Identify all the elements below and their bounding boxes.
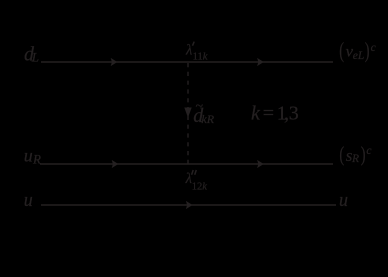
svg-text:c: c <box>371 42 376 54</box>
node label u_R <box>24 146 41 167</box>
arrowhead on top line (left) <box>111 58 118 66</box>
svg-text:λ: λ <box>185 43 192 59</box>
svg-text:kR: kR <box>201 112 214 126</box>
svg-text:R: R <box>351 153 359 165</box>
svg-text:u: u <box>339 190 348 211</box>
wire: middle fermion line u_R to (s_R)^c <box>40 163 333 165</box>
text k = 1, 3 <box>251 103 299 125</box>
arrowhead on top line (right) <box>257 58 264 66</box>
arrowhead on bottom line <box>186 201 193 209</box>
wire: scalar propagator d~_kR (vertical dashed line) <box>187 63 189 164</box>
arrowhead on middle line (left) <box>112 160 119 168</box>
svg-text:u: u <box>24 190 33 211</box>
vertex label lambda'_11k <box>185 42 208 63</box>
svg-text:R: R <box>32 152 41 167</box>
svg-text:): ) <box>361 142 366 166</box>
wire: bottom fermion line u to u <box>41 204 336 206</box>
node label d_L <box>24 44 39 66</box>
svg-text:(: ( <box>339 142 344 166</box>
svg-text:): ) <box>365 38 370 63</box>
svg-text:~: ~ <box>196 99 204 114</box>
svg-text:c: c <box>366 145 371 157</box>
svg-text:(: ( <box>339 38 344 63</box>
svg-text:eL: eL <box>353 50 365 62</box>
arrowhead on middle line (right) <box>257 160 264 168</box>
node label (nu_eL)^c <box>339 38 376 63</box>
svg-text:11k: 11k <box>193 51 208 62</box>
vertex label lambda''_12k <box>185 170 208 193</box>
arrowhead on dashed line (downward) <box>184 108 191 118</box>
svg-text:L: L <box>31 50 39 65</box>
svg-text:=: = <box>263 103 274 125</box>
svg-text:u: u <box>24 146 33 166</box>
label d~_kR (scalar) <box>193 99 215 127</box>
svg-text:3: 3 <box>289 103 299 125</box>
node label (s_R)^c <box>339 142 371 166</box>
wire: top fermion line d_L to (nu_eL)^c <box>41 61 333 63</box>
svg-text:12k: 12k <box>192 182 208 193</box>
svg-text:k: k <box>251 103 261 125</box>
svg-text:λ: λ <box>185 171 192 187</box>
